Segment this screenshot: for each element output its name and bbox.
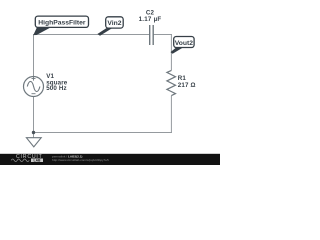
svg-text:R1: R1 — [178, 75, 187, 82]
ground — [26, 138, 41, 147]
flag Vout2 tail — [171, 48, 183, 54]
svg-text:http://www.circuitlab.com/c/pq: http://www.circuitlab.com/c/pqbzt3bpy7e5 — [52, 158, 109, 162]
wire left side lower (V1 to bottom corner) — [33, 96, 35, 132]
footer logo LAB box — [31, 159, 43, 163]
wire ground stub — [33, 133, 35, 138]
svg-text:500 Hz: 500 Hz — [46, 85, 67, 92]
flag Vin2 tail — [97, 28, 112, 36]
resistor R1 labels — [178, 75, 196, 89]
capacitor C2 — [150, 25, 154, 45]
wire right side lower (resistor to bottom corner) — [170, 96, 172, 133]
footer bar — [0, 154, 220, 165]
wire bottom — [34, 132, 173, 134]
V1 labels — [46, 73, 68, 92]
svg-text:Vout2: Vout2 — [175, 40, 193, 47]
footer logo waveform — [11, 159, 29, 162]
svg-text:217 Ω: 217 Ω — [178, 82, 196, 89]
svg-text:1.17 µF: 1.17 µF — [139, 16, 162, 23]
capacitor C2 labels — [139, 9, 162, 23]
flag HighPassFilter tail — [33, 28, 50, 35]
wire right side upper (corner to resistor) — [170, 34, 172, 70]
flag Vout2 — [174, 37, 194, 48]
wire top-left to capacitor — [34, 34, 150, 36]
svg-text:HighPassFilter: HighPassFilter — [38, 19, 86, 26]
svg-text:Vin2: Vin2 — [107, 20, 121, 27]
wire left side upper (corner to V1) — [33, 34, 35, 77]
voltage source V1 — [24, 77, 44, 97]
svg-text:LAB: LAB — [34, 158, 42, 162]
flag Vin2 — [106, 17, 124, 28]
flag HighPassFilter — [35, 16, 88, 27]
wire capacitor to top-right corner — [153, 34, 172, 36]
junction dot bottom-left node — [32, 131, 35, 134]
resistor R1 — [167, 70, 176, 95]
